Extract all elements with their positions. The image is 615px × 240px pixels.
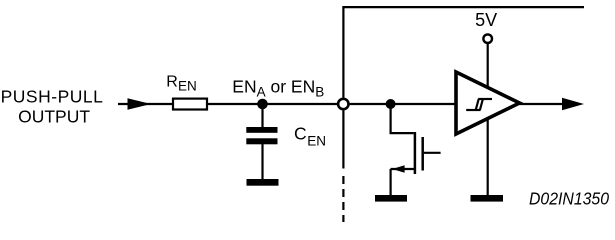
wire buffer to ground bbox=[487, 120, 489, 196]
wire EN pin down (solid) bbox=[342, 110, 344, 168]
wire resistor to EN node bbox=[208, 103, 338, 105]
svg-text:OUTPUT: OUTPUT bbox=[18, 106, 90, 126]
wire dashed continuation bbox=[342, 176, 344, 222]
wire EN node down to capacitor bbox=[261, 104, 263, 128]
label PUSH-PULL OUTPUT bbox=[1, 87, 104, 127]
transistor Q1 gate bar bbox=[421, 137, 424, 171]
transistor Q1 source arrow bbox=[392, 165, 404, 172]
wire EN pin to buffer input bbox=[349, 103, 456, 105]
transistor Q1 gate stub bbox=[424, 152, 441, 154]
svg-text:C: C bbox=[294, 124, 307, 144]
label CEN bbox=[294, 124, 326, 149]
transistor Q1 source lead bbox=[391, 168, 416, 170]
wire top rail bbox=[343, 7, 584, 98]
svg-text:EN: EN bbox=[307, 133, 326, 148]
ground (capacitor) bbox=[247, 179, 279, 186]
svg-text:PUSH-PULL: PUSH-PULL bbox=[1, 87, 104, 107]
power 5V terminal bbox=[475, 10, 497, 86]
transistor Q1 (MOSFET) drain wire bbox=[391, 104, 414, 133]
wire source to ground bbox=[390, 169, 392, 195]
ground (transistor source) bbox=[375, 195, 407, 202]
capacitor C1 (CEN) plates bbox=[246, 127, 277, 144]
resistor R1 (REN) bbox=[173, 99, 207, 110]
svg-text:ENA or ENB: ENA or ENB bbox=[232, 76, 324, 99]
buffer U1 (Schmitt trigger) bbox=[456, 72, 520, 134]
svg-text:D02IN1350: D02IN1350 bbox=[529, 189, 609, 209]
label REN bbox=[166, 74, 196, 94]
ground (buffer) bbox=[471, 195, 504, 202]
hysteresis symbol bbox=[466, 99, 492, 110]
junction dot (transistor drain node) bbox=[386, 99, 396, 109]
svg-text:R: R bbox=[166, 74, 178, 91]
node EN pin circle (open terminal) bbox=[338, 99, 348, 109]
node EN junction dot bbox=[257, 99, 268, 110]
svg-text:5V: 5V bbox=[475, 10, 497, 30]
wire input from source to resistor bbox=[118, 103, 172, 105]
input arrow (signal direction) bbox=[128, 98, 152, 110]
transistor Q1 channel bar bbox=[414, 132, 417, 174]
wire capacitor to ground bbox=[261, 144, 263, 179]
svg-text:EN: EN bbox=[178, 79, 197, 94]
output arrow bbox=[562, 98, 584, 111]
wire output bbox=[518, 103, 563, 105]
